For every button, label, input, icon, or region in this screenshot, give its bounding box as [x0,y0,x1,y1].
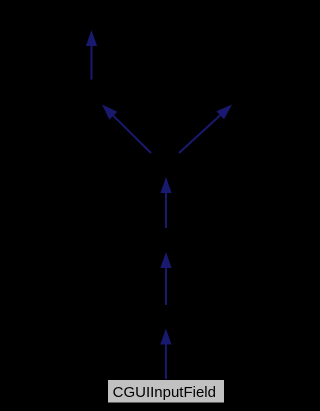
arrow D (vertical middle chain edge) [160,177,171,228]
arrow C (diagonal up-right to second parent) [179,105,232,154]
arrow B (diagonal up-left to first parent) [102,105,151,154]
svg-text:CGUIInputField: CGUIInputField [113,384,216,401]
node box CGUIInputField [108,380,225,404]
arrow F (vertical edge into CGUIInputField box) [160,329,171,380]
arrow A (grandparent edge, vertical upper-left) [86,30,97,80]
arrow E (vertical lower chain edge) [160,252,171,305]
